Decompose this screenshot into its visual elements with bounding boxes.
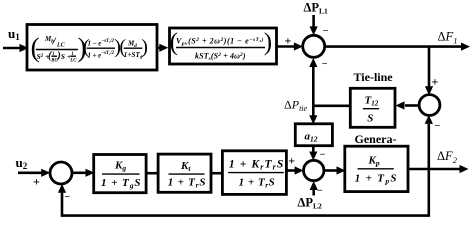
svg-text:kSTs(S2 + 4ω2): kSTs(S2 + 4ω2) [195, 52, 246, 63]
svg-text:): ) [264, 29, 272, 56]
svg-text:+: + [288, 154, 295, 168]
svg-text:S: S [367, 113, 373, 125]
svg-text:LC: LC [69, 58, 77, 63]
svg-text:−: − [317, 185, 323, 196]
svg-text:−: − [323, 26, 329, 37]
svg-text:1 + TgS: 1 + TgS [101, 177, 141, 190]
svg-text:−: − [65, 192, 71, 203]
svg-text:+: + [33, 175, 40, 189]
svg-text:Tie-line: Tie-line [354, 70, 394, 84]
svg-text:+: + [432, 75, 439, 89]
svg-text:1 + TpS: 1 + TpS [355, 173, 397, 186]
svg-text:LC: LC [56, 43, 66, 49]
svg-text:1 + TrS: 1 + TrS [168, 177, 206, 190]
svg-text:−: − [320, 150, 326, 161]
svg-text:+: + [285, 34, 292, 48]
svg-text:−: − [322, 59, 328, 70]
svg-text:1 + TrS: 1 + TrS [239, 177, 275, 190]
svg-text:Genera-: Genera- [355, 132, 397, 146]
svg-text:−: − [435, 121, 441, 132]
